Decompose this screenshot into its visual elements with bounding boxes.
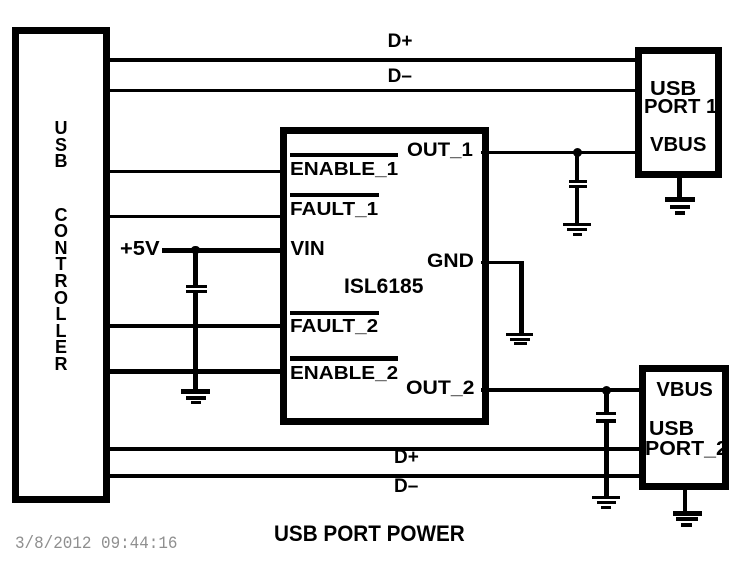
wire GND pin vertical (519, 261, 524, 334)
capacitor C1 (186, 285, 208, 289)
U1 value label ISL6185 (344, 276, 423, 297)
USB PORT_2 box J2 (639, 365, 729, 490)
J1 label USB (650, 79, 696, 99)
ground at C3 (592, 496, 620, 500)
pin label FAULT_2 with overline (290, 311, 379, 315)
wire VIN from +5V to U1 (162, 248, 280, 253)
ground at C1 (181, 389, 210, 394)
wire D+ top (110, 58, 635, 62)
wire D- top (110, 89, 635, 92)
node junction at capacitor C2 (573, 148, 582, 157)
net label D+ bottom (394, 448, 419, 467)
wire port 1 ground stem (677, 172, 682, 197)
net label D- bottom (394, 477, 418, 496)
net label D- top (388, 67, 412, 86)
wire C2 top lead (575, 152, 580, 180)
wire C2 bottom lead (575, 188, 580, 223)
date stamp (15, 536, 177, 554)
title label USB PORT POWER (274, 523, 465, 545)
pin label ENABLE_2 with overline (290, 356, 398, 361)
wire C1 top lead (193, 250, 198, 285)
wire C1 bottom lead (193, 293, 198, 389)
wire D- bottom (110, 474, 639, 478)
wire ENABLE_2 (110, 369, 280, 374)
ground at port 1 (665, 197, 695, 202)
ground at U1 GND pin (506, 333, 533, 337)
wire C3 top lead (604, 390, 609, 412)
power label +5V (120, 239, 160, 259)
ground at C2 (563, 223, 591, 227)
wire port 2 ground stem (683, 484, 688, 511)
wire ENABLE_1 (110, 170, 280, 173)
wire FAULT_2 (110, 324, 280, 328)
node junction at capacitor C3 (602, 386, 611, 395)
wire OUT_2 to port 2 VBUS (481, 388, 639, 393)
capacitor C3 (596, 412, 616, 416)
net label D+ top (388, 32, 413, 51)
wire GND pin horizontal (481, 261, 524, 265)
J1 pin label VBUS (650, 135, 706, 155)
USB controller label "USB" (12, 120, 110, 169)
pin label OUT_1 (407, 141, 473, 160)
ground at port 2 (673, 511, 703, 516)
J2 label PORT_2 (645, 439, 728, 459)
J2 pin label VBUS (656, 380, 712, 400)
pin label GND (427, 252, 474, 272)
wire C3 bottom lead (604, 423, 609, 496)
pin label ENABLE_1 with overline (290, 153, 398, 157)
op-amp U1 ISL6185 box (280, 127, 489, 425)
wire D+ bottom (110, 447, 639, 451)
pin label VIN (291, 239, 325, 260)
USB controller label "CONTROLLER" (12, 207, 110, 373)
USB controller U2 (12, 27, 110, 503)
node junction at +5V capacitor C1 (191, 246, 200, 255)
USB PORT 1 box J1 (635, 47, 722, 178)
J2 label USB (649, 419, 694, 439)
J1 label PORT 1 (644, 97, 717, 117)
pin label OUT_2 (406, 379, 475, 399)
wire OUT_1 to port 1 VBUS (481, 151, 635, 154)
pin label FAULT_1 with overline (290, 193, 379, 197)
capacitor C2 (569, 180, 588, 184)
wire FAULT_1 (110, 215, 280, 218)
